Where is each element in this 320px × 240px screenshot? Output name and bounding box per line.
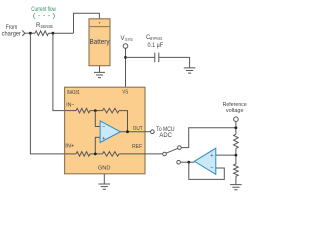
svg-text:+: +: [102, 136, 105, 142]
svg-text:voltage: voltage: [226, 108, 244, 114]
battery BT1: [89, 19, 110, 66]
node A junction dot: [29, 32, 32, 35]
svg-text:SENSE: SENSE: [41, 24, 54, 29]
svg-text:−: −: [102, 125, 105, 131]
terminal VSYS: [123, 44, 128, 49]
wire IN+ pin to R3: [65, 153, 76, 155]
svg-text:V: V: [121, 36, 125, 42]
wire plus input stub: [95, 137, 100, 154]
resistor RSENSE: [35, 31, 49, 36]
svg-text:REF: REF: [132, 144, 142, 150]
resistor R5 divider top: [234, 134, 239, 148]
wire capacitor to ground: [159, 57, 190, 68]
svg-text:ADC: ADC: [159, 133, 172, 139]
wire GND pin to ground: [103, 174, 105, 184]
wire OUT pin to terminal: [145, 131, 151, 133]
wire minus input stub: [95, 111, 100, 127]
svg-text:BYPASS: BYPASS: [150, 36, 162, 41]
wire lower contact to buffer output: [180, 161, 194, 163]
switch upper contact: [178, 146, 182, 150]
ground divider: [230, 185, 242, 190]
svg-text:+: +: [210, 153, 213, 159]
wire R5 to R6: [235, 148, 237, 164]
svg-text:IN+: IN+: [65, 143, 75, 149]
svg-text:charger: charger: [2, 32, 21, 38]
node divider mid junction dot: [235, 154, 238, 157]
wire VSYS to VS pin: [125, 48, 127, 87]
resistor R3 input: [76, 152, 90, 157]
switch lever: [166, 148, 178, 153]
wire VSYS to capacitor: [126, 56, 155, 58]
svg-text:IN−: IN−: [66, 102, 75, 108]
wire reference terminal to R5: [235, 122, 237, 135]
svg-text:Battery: Battery: [90, 39, 110, 46]
svg-text:GND: GND: [98, 166, 111, 172]
svg-text:SYS: SYS: [125, 37, 133, 42]
terminal reference voltage: [234, 117, 239, 122]
resistor R1 input: [76, 108, 90, 113]
terminal to MCU ADC: [151, 130, 155, 134]
op-amp A2 buffer: [194, 148, 215, 174]
node IN- junction dot: [94, 109, 97, 112]
svg-text:( - - - ): ( - - - ): [33, 13, 56, 20]
wire node A down to IN+: [30, 33, 64, 154]
wire R3 to R4: [90, 153, 103, 155]
svg-text:VS: VS: [122, 89, 128, 95]
INA181 block U1: [65, 87, 145, 174]
svg-text:To MCU: To MCU: [156, 127, 174, 133]
switch lower contact: [177, 160, 181, 164]
wire charger to resistor: [25, 32, 35, 34]
op-amp A1 INA internal: [100, 121, 120, 143]
wire opamp output to OUT pin: [120, 131, 145, 133]
wire upper contact to reference rail: [181, 128, 236, 148]
resistor R4 reference: [103, 152, 120, 157]
wire up to battery top rail: [74, 13, 100, 33]
wire R2 down to output: [119, 111, 128, 132]
node B junction dot: [52, 32, 55, 35]
resistor R6 divider bottom: [234, 164, 239, 176]
wire REF pin to switch pole: [145, 153, 163, 155]
svg-text:From: From: [6, 25, 18, 31]
svg-text:INA181: INA181: [67, 90, 80, 96]
wire resistor to corner: [49, 32, 74, 34]
connector chevron from charger: [22, 30, 25, 36]
wire battery to ground: [99, 66, 101, 73]
ground INA181: [99, 184, 111, 189]
wire R4 to REF pin: [119, 153, 145, 155]
wire buffer plus input to divider: [216, 154, 236, 156]
node output junction dot: [126, 130, 129, 133]
capacitor CBYPASS: [155, 53, 159, 63]
svg-text:+: +: [98, 21, 101, 26]
svg-text:0.1 µF: 0.1 µF: [148, 43, 164, 49]
wire IN- pin to R1: [65, 110, 76, 112]
ground battery: [94, 72, 105, 77]
wire R1 to R2: [90, 110, 103, 112]
wire buffer feedback: [189, 162, 225, 179]
svg-text:OUT: OUT: [133, 126, 143, 132]
node IN+ junction dot: [94, 153, 97, 156]
node buffer output junction dot: [187, 161, 190, 164]
svg-text:−: −: [210, 166, 213, 172]
wire node B down to IN-: [53, 33, 65, 110]
ground capacitor: [184, 68, 196, 73]
switch pole contact: [163, 152, 167, 156]
node VSYS junction dot: [124, 56, 127, 59]
wire R6 to ground: [235, 176, 237, 184]
node divider top junction dot: [235, 126, 238, 129]
resistor R2 feedback: [103, 108, 120, 113]
